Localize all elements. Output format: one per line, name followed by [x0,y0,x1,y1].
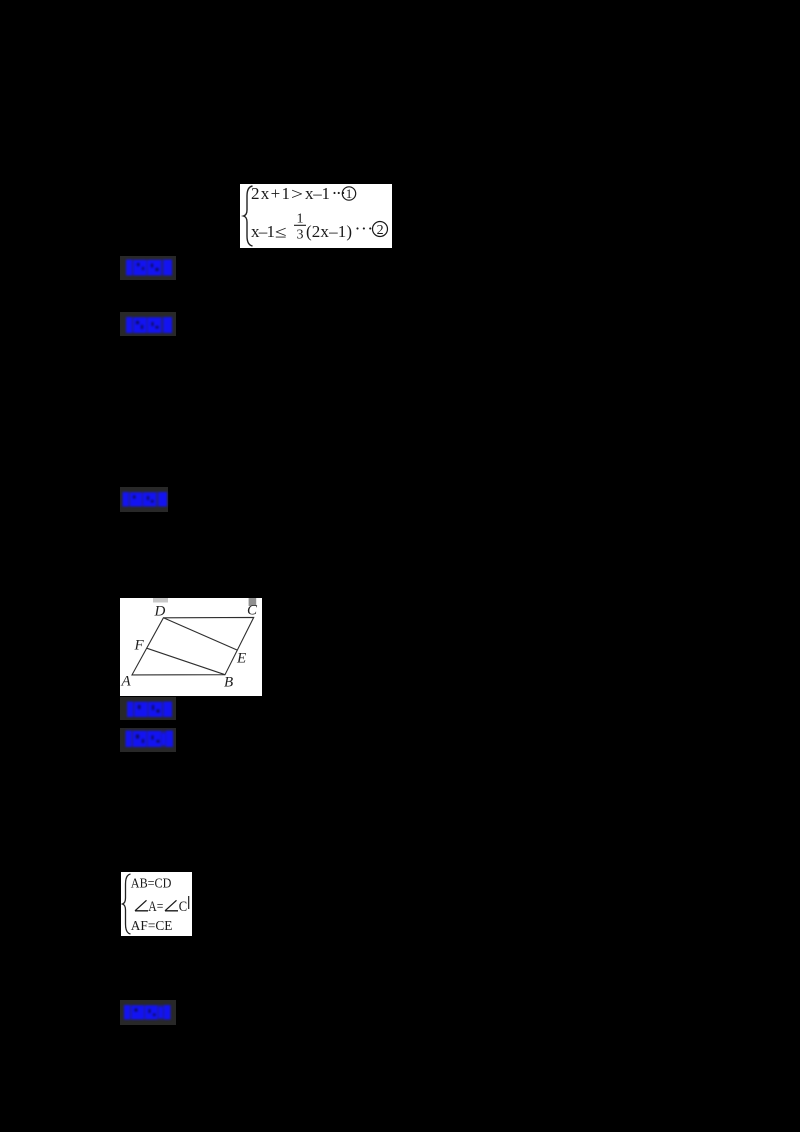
left brace [244,186,253,246]
svg-text:2: 2 [377,223,384,238]
svg-text:AB=CD: AB=CD [130,876,171,891]
segment F-B [146,648,224,675]
svg-text:B: B [224,675,233,691]
vertex labels [120,603,258,691]
svg-text:···: ··· [332,184,346,203]
blue label 4 [120,697,176,720]
segment D-E [163,618,237,650]
svg-text:C: C [247,603,258,619]
svg-text:1: 1 [346,186,353,201]
svg-text:2x+1: 2x+1 [251,184,290,203]
blue label 3 "comment" [120,487,168,512]
angle A = angle C [135,900,178,911]
blue label 2 "solution" [120,312,176,336]
svg-text:···: ··· [355,219,374,239]
small gray artifact marks on top edge [153,598,168,603]
svg-text:D: D [153,604,165,620]
blue label 6 [120,1000,177,1025]
svg-text:(2x–1): (2x–1) [306,222,352,241]
equation system box 1: {2x+1>x-1...1 ; x-1<=1/3(2x-1)...2} [240,184,392,248]
svg-text:E: E [236,651,246,667]
svg-text:3: 3 [297,228,304,243]
svg-text:x–1: x–1 [305,184,330,203]
svg-text:1: 1 [297,212,304,227]
svg-text:C: C [178,898,186,914]
svg-text:A=: A= [148,898,163,914]
svg-text:A: A [120,674,131,690]
equation system box 2: {AB=CD ; angle A = angle C ; AF=CE} [121,872,192,936]
geometry figure: parallelogram ABCD with F on AD, E on BC [120,598,263,696]
svg-text:AF=CE: AF=CE [130,918,172,933]
svg-text:>: > [291,185,303,204]
svg-text:x–1: x–1 [251,222,275,241]
left brace [122,874,130,934]
blue label 5 [120,728,176,752]
parallelogram sides [132,617,254,675]
cursor artifact [188,896,189,909]
svg-text:≤: ≤ [275,223,287,242]
blue label 1 "analysis" [120,256,176,280]
svg-text:F: F [133,638,144,654]
